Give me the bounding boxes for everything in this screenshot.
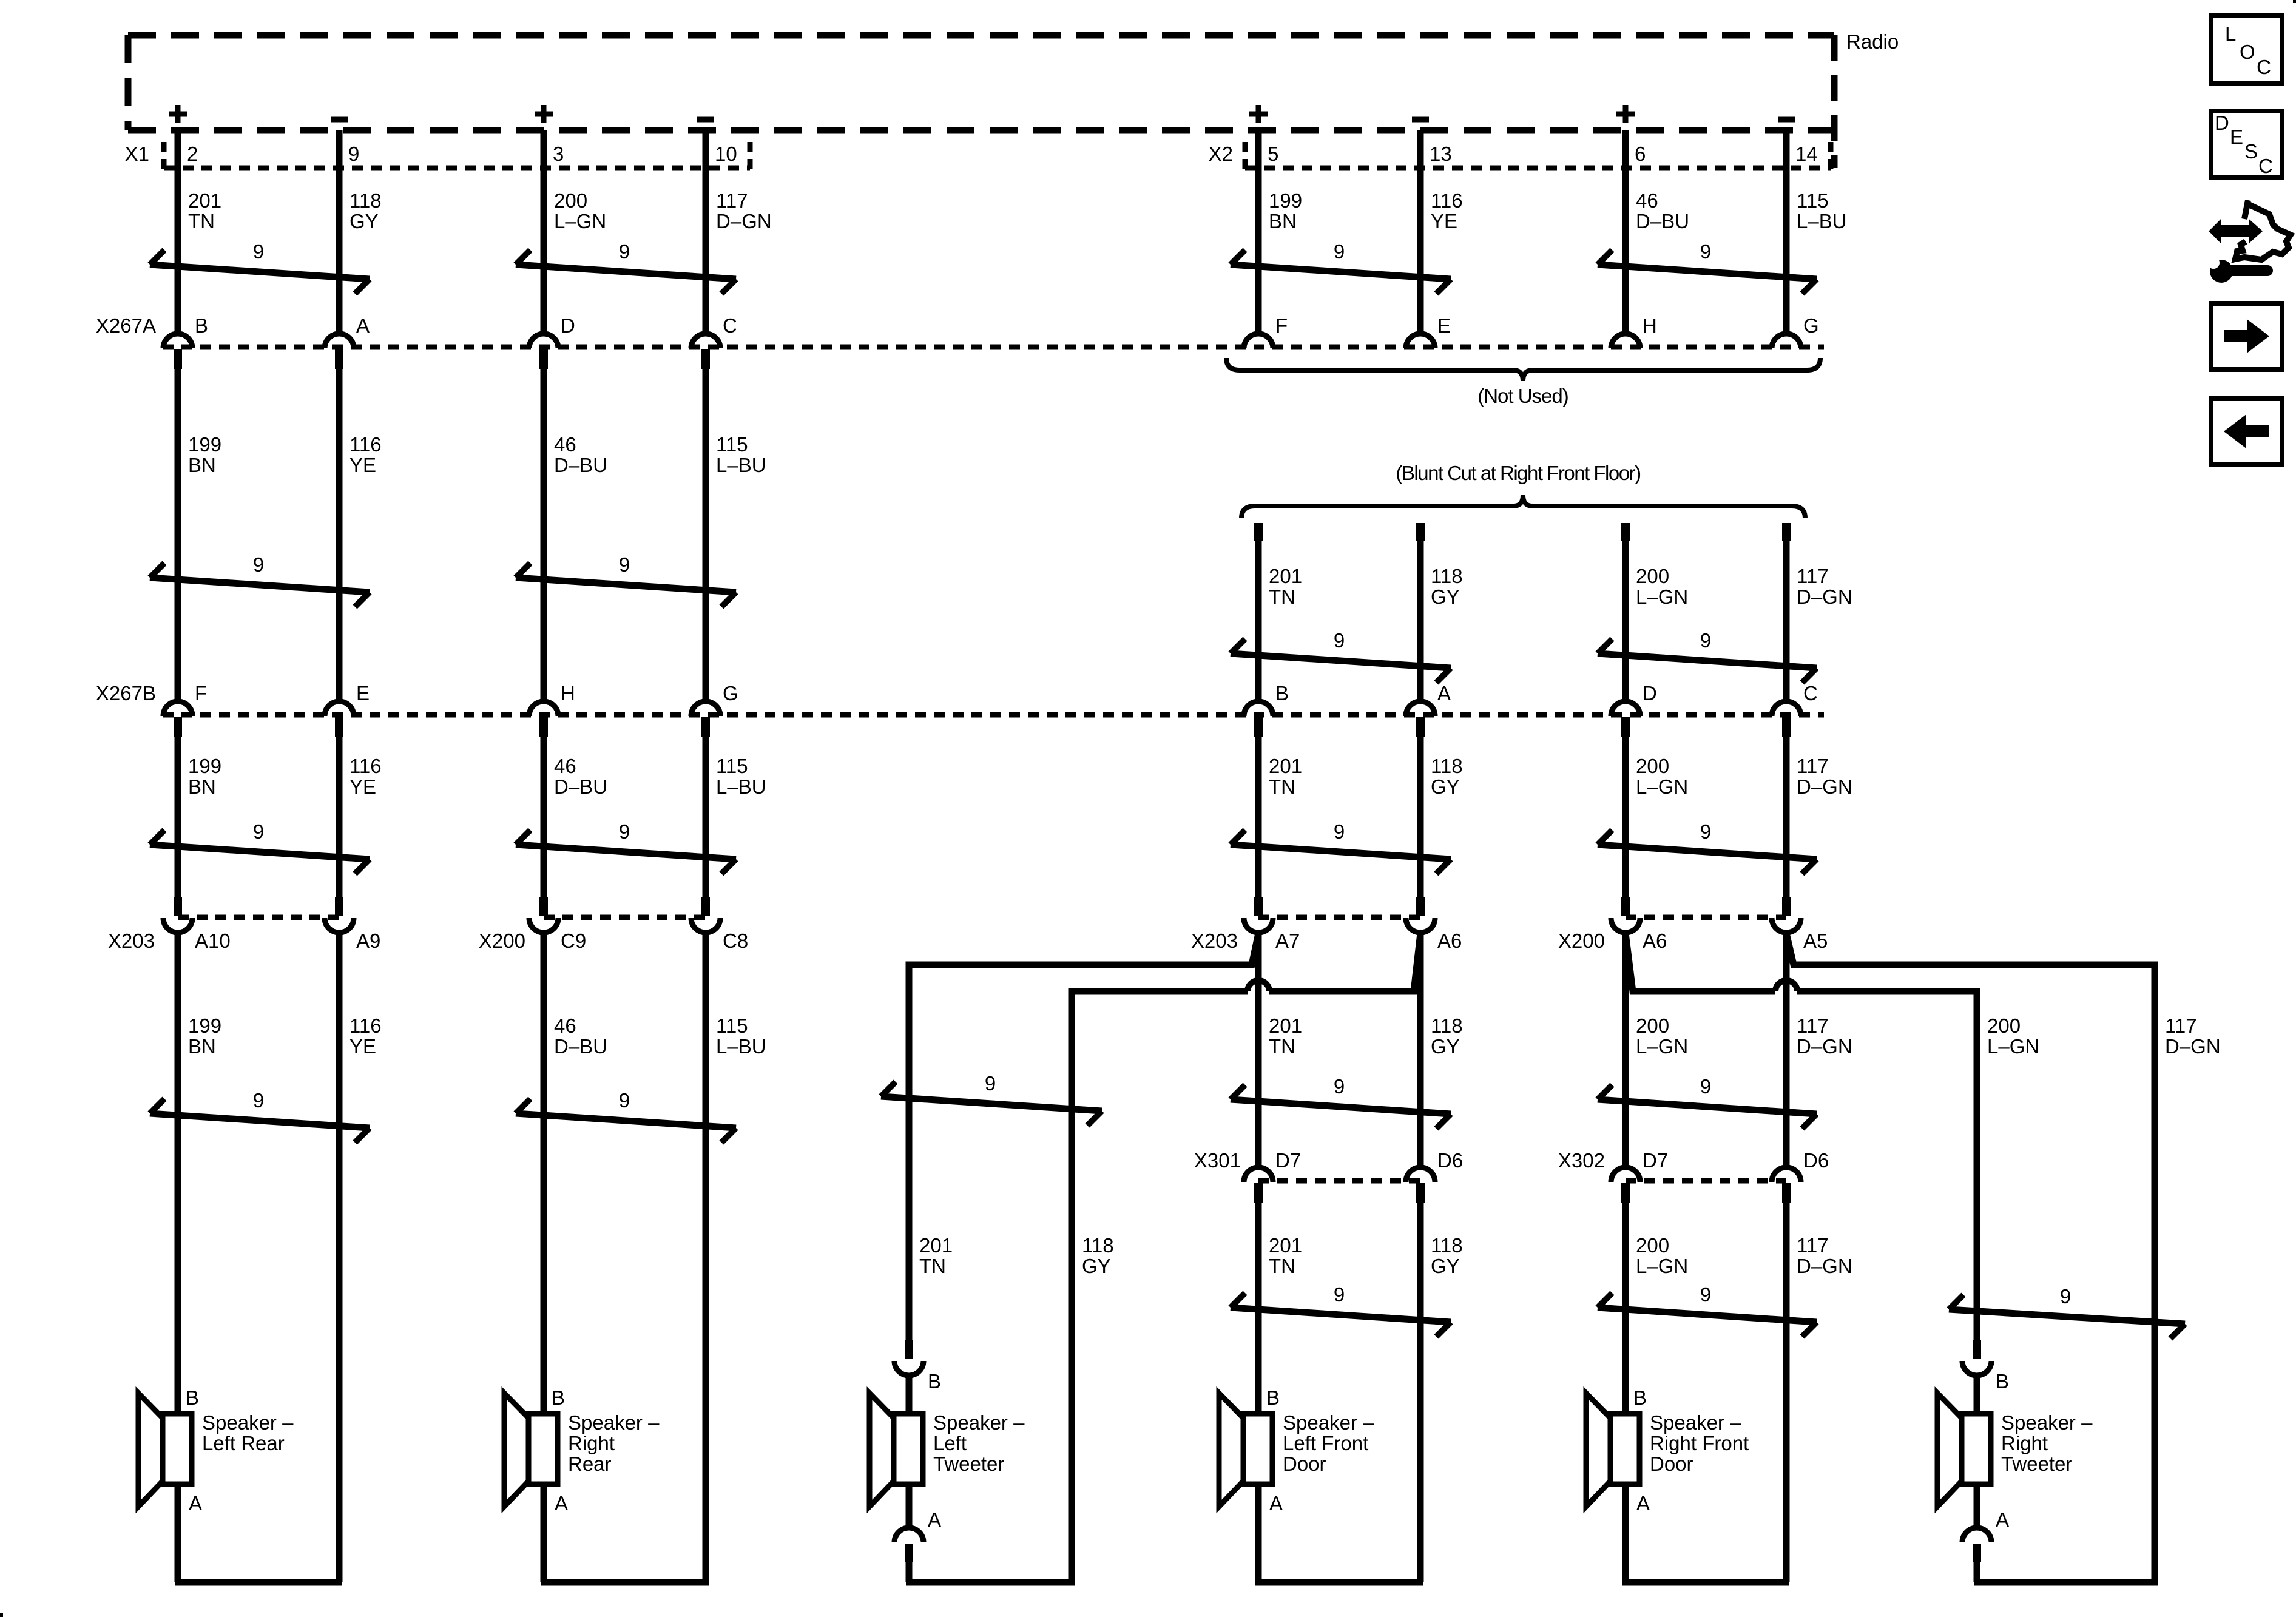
X267B terminal E (325, 701, 354, 737)
wire label 201 (lower section) (919, 1234, 953, 1277)
svg-text:L–BU: L–BU (716, 1035, 766, 1058)
X203/X200 terminal A9 (325, 897, 354, 933)
page corner mark bottom left (0, 1613, 3, 1617)
wire label 201 (below X203 section) (1269, 1014, 1302, 1058)
svg-text:9: 9 (619, 553, 630, 576)
twisted pair 9 at y2158 (1949, 1285, 2185, 1338)
svg-text:Rear: Rear (568, 1453, 612, 1475)
svg-text:E: E (356, 682, 370, 704)
wire 115 L-BU from X267A to X267B (703, 369, 709, 699)
twisted pair 9 at y2155 (1231, 1283, 1451, 1337)
svg-text:201: 201 (1269, 1014, 1302, 1037)
wire 46 D-BU from X203/X200 to rear speaker (541, 933, 547, 1582)
wire label 201 (X267B-X203 section) (1269, 755, 1302, 798)
svg-text:C: C (2258, 155, 2273, 177)
svg-text:D–BU: D–BU (1636, 210, 1689, 232)
svg-text:D–GN: D–GN (1797, 775, 1852, 798)
svg-text:YE: YE (349, 1035, 376, 1058)
X203/X200 terminal C8 (691, 897, 720, 933)
icon box DESC (2211, 111, 2282, 178)
twisted pair 9 at y436 (516, 240, 736, 294)
X267A terminal G (1772, 334, 1801, 348)
X301/X302 terminal D7 (1611, 1167, 1640, 1203)
svg-text:A: A (1636, 1492, 1650, 1514)
twisted pair 9 at y1392 (150, 820, 370, 874)
connector X200 row (left, dashed) (544, 915, 706, 920)
wire label 116 (radio section) (1431, 189, 1463, 232)
X267A terminal C (691, 334, 720, 369)
twisted pair 9 at y1392 (1231, 820, 1451, 874)
wire 201 TN from X301/X302 to front door speaker (1255, 1203, 1262, 1582)
svg-text:115: 115 (716, 433, 748, 456)
svg-text:14: 14 (1795, 143, 1818, 165)
svg-text:9: 9 (348, 143, 359, 165)
bottom return wire left tweeter speaker (906, 1579, 1075, 1586)
blunt-cut wire 201 TN to X267B (1254, 523, 1263, 699)
svg-text:BN: BN (188, 1035, 216, 1058)
svg-text:D–BU: D–BU (554, 775, 607, 798)
svg-text:118: 118 (1431, 565, 1463, 587)
X267B terminal G (691, 701, 720, 737)
svg-text:201: 201 (919, 1234, 953, 1257)
speaker Right Rear name (568, 1411, 660, 1475)
X267A terminal F (1244, 334, 1273, 348)
svg-text:9: 9 (1700, 240, 1711, 263)
svg-text:TN: TN (919, 1255, 946, 1277)
svg-text:H: H (561, 682, 575, 704)
X267B terminal H (529, 701, 558, 737)
left tweeter inline connector (pin/cup) (894, 1340, 923, 1376)
wire label 199 (X267B-X203 section) (188, 755, 221, 798)
wire 46 D-BU from X267A to X267B (541, 369, 547, 699)
svg-text:L–GN: L–GN (1636, 1035, 1688, 1058)
svg-text:199: 199 (1269, 189, 1302, 212)
svg-text:C9: C9 (561, 930, 586, 952)
svg-text:(Not Used): (Not Used) (1477, 385, 1568, 407)
svg-text:A: A (356, 314, 370, 337)
svg-text:X267B: X267B (96, 682, 156, 704)
wire 199 BN from X267A to X267B (175, 369, 181, 699)
svg-text:A: A (928, 1508, 941, 1531)
wire 117 D-GN from X267B to X203/X200 (1783, 737, 1790, 897)
speaker Left Tweeter (869, 1393, 923, 1507)
wire label 115 (X267A-X267B section) (716, 433, 766, 476)
svg-text:46: 46 (1636, 189, 1658, 212)
svg-text:115: 115 (716, 755, 748, 777)
svg-text:D7: D7 (1643, 1149, 1668, 1172)
svg-text:GY: GY (1431, 586, 1460, 608)
wire 116 YE from X267B to X203/X200 (336, 737, 343, 897)
twisted pair 9 at y1812 (1598, 1075, 1817, 1129)
speaker Right Front Door (1586, 1393, 1639, 1507)
X267B terminal B (1244, 701, 1273, 737)
svg-text:46: 46 (554, 755, 576, 777)
svg-text:B: B (552, 1386, 565, 1409)
wire 46 D-BU from X267B to X203/X200 (541, 737, 547, 897)
svg-text:199: 199 (188, 755, 221, 777)
svg-text:9: 9 (1334, 1075, 1345, 1098)
svg-text:Right: Right (568, 1432, 615, 1454)
svg-text:E: E (2230, 126, 2243, 148)
svg-text:9: 9 (1334, 629, 1345, 652)
blunt-cut wire 200 L-GN to X267B (1621, 523, 1630, 699)
svg-text:C: C (723, 314, 737, 337)
svg-text:D–GN: D–GN (1797, 586, 1852, 608)
wire 118 GY branch X203-A6 to left tweeter (1072, 933, 1420, 1582)
connector X302 row (dashed) (1626, 1178, 1786, 1184)
svg-text:46: 46 (554, 1014, 576, 1037)
svg-text:9: 9 (1700, 1283, 1711, 1306)
wire label 200 (X267B-X203 section) (1636, 755, 1688, 798)
wire 118 GY from radio X1 to X267A (336, 130, 343, 331)
twisted pair 9 at y1835 (150, 1089, 370, 1143)
svg-text:YE: YE (349, 775, 376, 798)
svg-text:Radio: Radio (1846, 30, 1899, 53)
wire label 118 (below X203 section) (1431, 1014, 1463, 1058)
twisted pair 9 at y1835 (516, 1089, 736, 1143)
twisted pair 9 at y436 (1231, 240, 1451, 294)
svg-text:2: 2 (187, 143, 198, 165)
svg-text:X203: X203 (1191, 930, 1238, 952)
svg-text:GY: GY (1431, 1255, 1460, 1277)
wire label 116 (below X203 section) (349, 1014, 382, 1058)
svg-text:200: 200 (1987, 1014, 2021, 1037)
X267A terminal E (1406, 334, 1435, 348)
twisted pair 9 at y436 (150, 240, 370, 294)
svg-text:TN: TN (1269, 775, 1295, 798)
connector X1 face (dashed) (164, 142, 750, 172)
wire left tweeter to bottom (906, 1562, 913, 1582)
svg-text:G: G (1803, 314, 1819, 337)
twisted pair 9 at y952 (150, 553, 370, 607)
X267A terminal D (529, 334, 558, 369)
svg-text:Tweeter: Tweeter (2001, 1453, 2072, 1475)
svg-text:B: B (1266, 1386, 1280, 1409)
svg-text:D6: D6 (1803, 1149, 1829, 1172)
wire 115 L-BU from X203/X200 to rear speaker (703, 933, 709, 1582)
svg-text:201: 201 (188, 189, 221, 212)
X203/X200 terminal A10 (163, 897, 192, 933)
svg-text:B: B (1633, 1386, 1647, 1409)
wire 199 BN from X203/X200 to rear speaker (175, 933, 181, 1582)
bottom return wire left rear speaker (175, 1579, 342, 1586)
svg-text:L–GN: L–GN (1636, 775, 1688, 798)
svg-text:D7: D7 (1275, 1149, 1301, 1172)
svg-text:G: G (723, 682, 738, 704)
svg-text:9: 9 (619, 820, 630, 843)
svg-text:B: B (1996, 1370, 2009, 1393)
polarity + (1616, 105, 1635, 123)
wire label 117 (below X203 section) (1797, 1014, 1852, 1058)
svg-text:118: 118 (1431, 1234, 1463, 1257)
wire 118 GY from X203/X200 to X301/X302 (1417, 933, 1424, 1165)
svg-text:D–BU: D–BU (554, 454, 607, 476)
svg-text:116: 116 (349, 755, 382, 777)
icon box arrow left (2211, 399, 2282, 465)
svg-text:F: F (1275, 314, 1288, 337)
svg-text:9: 9 (253, 820, 264, 843)
speaker Left Rear (138, 1393, 192, 1507)
blunt-cut wire 118 GY to X267B (1416, 523, 1425, 699)
svg-text:9: 9 (2060, 1285, 2071, 1308)
svg-text:A: A (189, 1492, 202, 1514)
svg-text:Speaker –: Speaker – (202, 1411, 294, 1434)
X301/X302 terminal D6 (1772, 1167, 1801, 1203)
wire 115 L-BU from X267B to X203/X200 (703, 737, 709, 897)
wire 201 TN from X267B to X203/X200 (1255, 737, 1262, 897)
speaker Right Front Door name (1650, 1411, 1749, 1475)
svg-text:Left Front: Left Front (1283, 1432, 1368, 1454)
svg-text:YE: YE (349, 454, 376, 476)
wire label 199 (X267A-X267B section) (188, 433, 221, 476)
svg-text:A10: A10 (195, 930, 231, 952)
svg-text:6: 6 (1635, 143, 1646, 165)
polarity - (1778, 117, 1795, 123)
connector X200 row (right, dashed) (1626, 915, 1786, 920)
svg-text:A9: A9 (356, 930, 380, 952)
wire label 118 (lower section) (1082, 1234, 1114, 1277)
wire label 115 (below X203 section) (716, 1014, 766, 1058)
svg-text:D–GN: D–GN (716, 210, 772, 232)
svg-text:116: 116 (1431, 189, 1463, 212)
svg-text:D–GN: D–GN (1797, 1255, 1852, 1277)
svg-text:117: 117 (1797, 1014, 1829, 1037)
svg-text:9: 9 (1334, 240, 1345, 263)
svg-text:B: B (1275, 682, 1289, 704)
svg-text:A7: A7 (1275, 930, 1300, 952)
wire label 46 (below X203 section) (554, 1014, 607, 1058)
svg-text:GY: GY (349, 210, 379, 232)
wire 117 D-GN from radio X1 to X267A (703, 130, 709, 331)
wire left tweeter A to lower connector (906, 1484, 913, 1528)
twisted pair 9 at y1807 (881, 1072, 1102, 1126)
svg-text:A: A (555, 1492, 568, 1514)
radio dashed box (128, 35, 1834, 168)
svg-text:201: 201 (1269, 755, 1302, 777)
svg-text:200: 200 (1636, 565, 1669, 587)
svg-text:200: 200 (1636, 1234, 1669, 1257)
svg-text:BN: BN (188, 454, 216, 476)
wire label 116 (X267A-X267B section) (349, 433, 382, 476)
svg-text:Right: Right (2001, 1432, 2048, 1454)
svg-text:X1: X1 (125, 143, 149, 165)
svg-text:Right Front: Right Front (1650, 1432, 1749, 1454)
twisted pair 9 at y436 (1598, 240, 1817, 294)
X203/X200 terminal A7 (1244, 897, 1273, 933)
svg-text:3: 3 (553, 143, 564, 165)
wire label 46 (X267A-X267B section) (554, 433, 607, 476)
svg-text:TN: TN (1269, 1035, 1295, 1058)
wire 117 D-GN branch X200-A5 to right tweeter (1786, 933, 2155, 1582)
svg-text:9: 9 (1700, 1075, 1711, 1098)
wire label 200 (below X203 section) (1636, 1014, 1688, 1058)
wire label 46 (radio section) (1636, 189, 1689, 232)
wire label 201 (lower section) (1269, 1234, 1302, 1277)
svg-text:9: 9 (1334, 1283, 1345, 1306)
X267A terminal A (325, 334, 354, 369)
speaker Left Rear name (202, 1411, 294, 1454)
svg-text:L–BU: L–BU (716, 454, 766, 476)
svg-text:O: O (2240, 41, 2255, 63)
svg-text:S: S (2244, 140, 2258, 163)
right tweeter lower inline connector (arc/pin) (1962, 1528, 1991, 1562)
wire 116 YE from X203/X200 to rear speaker (336, 933, 343, 1582)
svg-text:E: E (1437, 314, 1451, 337)
wire label 200 (below X203 section) (1987, 1014, 2039, 1058)
polarity + (535, 105, 553, 123)
svg-text:GY: GY (1431, 1035, 1460, 1058)
X203/X200 terminal C9 (529, 897, 558, 933)
svg-text:Tweeter: Tweeter (933, 1453, 1004, 1475)
svg-text:L–GN: L–GN (1636, 586, 1688, 608)
twisted pair 9 at y2155 (1598, 1283, 1817, 1337)
svg-text:GY: GY (1431, 775, 1460, 798)
svg-text:200: 200 (554, 189, 587, 212)
wire 199 BN from radio X2 to X267A (1255, 130, 1262, 331)
svg-text:D: D (1643, 682, 1657, 704)
wire 200 L-GN from radio X1 to X267A (541, 130, 547, 331)
speaker Left Front Door name (1283, 1411, 1374, 1475)
svg-text:D6: D6 (1437, 1149, 1463, 1172)
bottom return wire right tweeter speaker (1974, 1579, 2158, 1586)
svg-text:10: 10 (715, 143, 737, 165)
svg-text:L: L (2225, 22, 2236, 45)
wire label 117 (X267B-X203 section) (1797, 755, 1852, 798)
brace blunt cut (1241, 495, 1805, 518)
svg-text:A6: A6 (1437, 930, 1462, 952)
svg-text:201: 201 (1269, 1234, 1302, 1257)
svg-text:H: H (1643, 314, 1657, 337)
speaker Right Tweeter (1937, 1393, 1991, 1507)
wire 200 L-GN from X267B to X203/X200 (1622, 737, 1629, 897)
X267B terminal A (1406, 701, 1435, 737)
svg-text:L–BU: L–BU (1797, 210, 1847, 232)
twisted pair 9 at y1077 (1231, 629, 1451, 683)
speaker Right Rear (504, 1393, 558, 1507)
wire 199 BN from X267B to X203/X200 (175, 737, 181, 897)
page corner mark top right (2293, 0, 2296, 3)
polarity - (331, 117, 348, 123)
svg-text:116: 116 (349, 1014, 382, 1037)
wire 115 L-BU from radio X2 to X267A (1783, 130, 1790, 331)
svg-text:117: 117 (1797, 565, 1829, 587)
svg-text:A5: A5 (1803, 930, 1828, 952)
wire label 200 (lower section) (1636, 1234, 1688, 1277)
twisted pair 9 at y1392 (1598, 820, 1817, 874)
wire label 117 (below X203 section) (2165, 1014, 2221, 1058)
svg-text:Speaker –: Speaker – (933, 1411, 1025, 1434)
speaker Left Front Door (1219, 1393, 1272, 1507)
X203/X200 terminal A6 (1611, 897, 1640, 933)
svg-text:Left Rear: Left Rear (202, 1432, 285, 1454)
svg-text:D: D (561, 314, 575, 337)
wire label 115 (X267B-X203 section) (716, 755, 766, 798)
svg-text:A: A (1996, 1508, 2009, 1531)
polarity + (169, 105, 187, 123)
wire 118 GY from X301/X302 to front door speaker (1417, 1203, 1424, 1582)
bottom return wire left front door speaker (1255, 1579, 1423, 1586)
svg-text:118: 118 (1431, 755, 1463, 777)
wire label 116 (X267B-X203 section) (349, 755, 382, 798)
svg-text:9: 9 (253, 240, 264, 263)
polarity + (1249, 105, 1268, 123)
svg-text:116: 116 (349, 433, 382, 456)
wire right tweeter to bottom (1974, 1562, 1980, 1582)
wire label 201 (blunt cut section) (1269, 565, 1302, 608)
svg-text:BN: BN (1269, 210, 1297, 232)
polarity - (697, 117, 714, 123)
wire label 118 (radio section) (349, 189, 382, 232)
svg-text:46: 46 (554, 433, 576, 456)
svg-text:C: C (1803, 682, 1818, 704)
svg-text:TN: TN (1269, 586, 1295, 608)
right tweeter inline connector (pin/cup) (1962, 1340, 1991, 1376)
svg-text:A: A (1437, 682, 1451, 704)
svg-text:F: F (195, 682, 207, 704)
blunt-cut wire 117 D-GN to X267B (1782, 523, 1791, 699)
wire 117 D-GN from X203/X200 to X301/X302 (1783, 933, 1790, 1165)
X267A terminal B (163, 334, 192, 369)
wire to left tweeter B (906, 1376, 913, 1414)
wire label 200 (radio section) (554, 189, 606, 232)
X267B terminal F (163, 701, 192, 737)
wire 201 TN from X203/X200 to X301/X302 (1255, 933, 1262, 1165)
icon repair (double arrow, outline, wrench) (2207, 200, 2291, 283)
svg-text:199: 199 (188, 1014, 221, 1037)
svg-text:D–GN: D–GN (1797, 1035, 1852, 1058)
twisted pair 9 at y1077 (1598, 629, 1817, 683)
svg-text:199: 199 (188, 433, 221, 456)
wire to right tweeter B (1974, 1376, 1980, 1414)
X203/X200 terminal A6 (1406, 897, 1435, 933)
left tweeter lower inline connector (arc/pin) (894, 1528, 923, 1562)
svg-text:9: 9 (619, 240, 630, 263)
svg-text:BN: BN (188, 775, 216, 798)
svg-text:Speaker –: Speaker – (568, 1411, 660, 1434)
svg-text:118: 118 (1431, 1014, 1463, 1037)
icon box LOC (2211, 15, 2282, 84)
svg-text:X203: X203 (108, 930, 155, 952)
svg-text:X200: X200 (479, 930, 525, 952)
svg-text:D: D (2215, 112, 2229, 134)
speaker Right Tweeter name (2001, 1411, 2093, 1475)
wire 118 GY from X267B to X203/X200 (1417, 737, 1424, 897)
X301/X302 terminal D7 (1244, 1167, 1273, 1203)
connector X267B row (dashed) (163, 712, 1824, 718)
svg-text:L–GN: L–GN (1987, 1035, 2039, 1058)
svg-text:TN: TN (188, 210, 215, 232)
svg-text:Left: Left (933, 1432, 967, 1454)
svg-text:117: 117 (1797, 1234, 1829, 1257)
wire label 117 (lower section) (1797, 1234, 1852, 1277)
svg-text:C8: C8 (723, 930, 748, 952)
wire 201 TN branch X203-A7 to left tweeter (909, 933, 1258, 1340)
X267B terminal D (1611, 701, 1640, 737)
svg-text:9: 9 (985, 1072, 996, 1095)
svg-text:L–GN: L–GN (1636, 1255, 1688, 1277)
svg-text:9: 9 (253, 553, 264, 576)
svg-text:5: 5 (1268, 143, 1278, 165)
wire label 46 (X267B-X203 section) (554, 755, 607, 798)
wire label 199 (below X203 section) (188, 1014, 221, 1058)
wire 200 L-GN from X301/X302 to front door speaker (1622, 1203, 1629, 1582)
X301/X302 terminal D6 (1406, 1167, 1435, 1203)
svg-text:B: B (186, 1386, 199, 1409)
svg-text:B: B (195, 314, 208, 337)
svg-text:X200: X200 (1558, 930, 1605, 952)
connector X2 face (dashed) (1245, 142, 1831, 172)
svg-text:A: A (1269, 1492, 1283, 1514)
